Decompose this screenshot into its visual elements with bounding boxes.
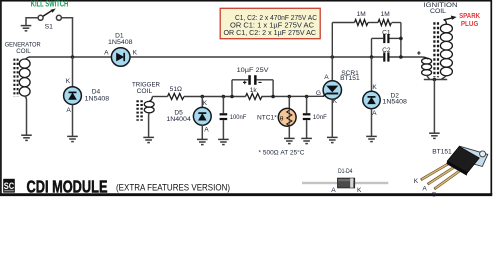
node: D2/C1 bus junction [370,55,374,59]
svg-text:BT151: BT151 [432,149,452,156]
ground (ignition coil) [429,133,440,138]
node: 100nF junction [222,95,226,99]
logo SC [3,179,15,193]
svg-text:(EXTRA FEATURES VERSION): (EXTRA FEATURES VERSION) [116,183,230,194]
svg-text:100nF: 100nF [230,114,247,121]
generator coil [14,57,30,97]
svg-text:K: K [203,100,208,107]
title CDI MODULE [27,176,108,196]
resistor R2 1M [378,11,392,25]
node: C1 right junction [399,37,403,41]
capacitor C2 [382,47,391,61]
wire: switch left to ground [26,18,38,25]
wire: NTC to ground [288,126,290,138]
ground (generator coil) [21,135,32,140]
svg-text:K: K [414,178,419,185]
resistor 51ohm [168,86,184,100]
SCR U1 SCR1 BT151 [316,70,360,105]
wire: SCR cathode to ground [331,99,333,137]
diode D2 [363,84,407,117]
diode D1 [104,32,138,66]
svg-text:K: K [357,187,362,194]
svg-text:S1: S1 [45,24,54,31]
wire: switch right to main bus [62,18,73,57]
node: NTC junction [288,95,292,99]
wire: D5 to ground [201,125,203,139]
svg-text:A: A [66,107,71,114]
svg-text:1N5408: 1N5408 [382,99,407,106]
node: 10nF junction [305,95,309,99]
svg-text:COIL: COIL [16,48,31,55]
svg-text:1M: 1M [381,11,390,18]
subtitle (EXTRA FEATURES VERSION) [116,183,230,194]
ground (100nF) [218,139,229,144]
label KILL SWITCH [31,0,69,9]
ground (D4) [67,136,78,141]
svg-text:K: K [133,50,138,57]
node: ignition coil common [433,78,437,82]
wire: rail to D5 [201,97,203,108]
ground (kill switch) [21,26,32,31]
node: SCR anode junction [331,55,335,59]
capacitor 100nF [220,97,247,140]
diode D5 [166,100,211,133]
wire: trigger coil to ground [148,113,151,137]
svg-text:1M: 1M [357,11,366,18]
note box: capacitor options [220,8,320,38]
svg-text:10nF: 10nF [313,114,327,121]
ground (trigger coil) [143,137,154,142]
wire: bus to SCR anode [331,57,333,81]
node: bus/C1 right junction [399,55,403,59]
svg-text:COIL: COIL [137,88,153,95]
ground (D5) [197,139,208,144]
svg-text:OR C1, C2: 2 x 1µF 275V AC: OR C1, C2: 2 x 1µF 275V AC [224,29,317,37]
resistor R1 1M [355,11,369,25]
note: 500 ohm at 25C [259,149,305,157]
capacitor 10uF 25V with bypass loop [232,67,273,97]
svg-text:BT151: BT151 [340,75,360,82]
label SPARK PLUG [459,11,481,28]
wire: coil common to ground [433,80,435,133]
node: 10uF right junction [271,95,275,99]
wire: 1M branch left riser [331,23,333,58]
svg-text:1k: 1k [250,87,258,94]
ground (SCR) [327,137,338,142]
svg-text:D1-D4: D1-D4 [338,168,353,175]
wire: rail to NTC [288,97,290,110]
svg-text:G: G [316,90,321,97]
svg-text:G: G [431,191,436,198]
label D1-D4 [338,168,353,175]
svg-text:NTC1*: NTC1* [257,114,277,121]
svg-text:A: A [324,74,329,81]
svg-text:K: K [372,84,377,91]
wire: trigger rail [152,95,324,97]
wire: generator coil to ground [25,96,27,135]
wire: 1M top rail [332,22,401,24]
svg-text:A: A [204,126,209,133]
diode D4 [64,78,110,114]
ground (NTC1) [284,138,295,143]
ground (10nF) [301,138,312,143]
capacitor 10nF [303,97,327,139]
svg-text:COIL: COIL [430,8,446,15]
wire: spark plug lead with arrow [444,16,457,25]
svg-text:51Ω: 51Ω [170,86,182,93]
svg-text:PLUG: PLUG [461,19,479,28]
node: D5 junction [201,95,205,99]
label BT151 [432,149,452,156]
svg-text:A: A [331,187,336,194]
wire: main bus [29,56,422,58]
svg-text:SC: SC [4,181,15,191]
svg-text:θ: θ [280,115,284,122]
label IGNITION COIL [424,2,458,15]
switch S1 [38,9,61,31]
svg-text:A: A [422,186,427,193]
svg-text:A: A [104,50,109,57]
svg-text:A: A [372,110,377,117]
node: 10uF left junction [230,95,234,99]
svg-text:* 500Ω AT 25°C: * 500Ω AT 25°C [259,149,305,157]
svg-text:1N5408: 1N5408 [108,39,133,46]
wire: D4 to ground [72,105,74,137]
trigger coil [138,97,155,121]
svg-text:D4: D4 [92,89,101,96]
label TRIGGER COIL [132,82,160,95]
node: switch/D4 junction [71,55,75,59]
wire: D2 to ground [371,109,373,136]
capacitor C1 [372,29,401,43]
svg-text:CDI MODULE: CDI MODULE [27,176,108,196]
ground (D2) [366,136,377,141]
svg-text:K: K [333,98,338,105]
picture: BT151 TO-220 package [414,146,488,198]
wire: bus to D4 [72,57,74,87]
label GENERATOR COIL [5,41,41,54]
svg-text:K: K [66,78,71,85]
wire: bus to D2 [371,57,373,92]
thermistor NTC1 [257,108,296,126]
svg-text:KILL SWITCH: KILL SWITCH [31,0,69,9]
wire: right riser 1M to C1 to bus [400,23,402,58]
picture: axial diode D1-D4 [302,178,388,194]
wire: C1 left riser to bus [371,38,373,57]
svg-text:1N5408: 1N5408 [85,96,110,103]
resistor 1k [246,87,263,100]
svg-text:10µF 25V: 10µF 25V [237,67,270,74]
ignition coil T1 [417,22,452,79]
svg-text:1N4004: 1N4004 [166,116,191,123]
